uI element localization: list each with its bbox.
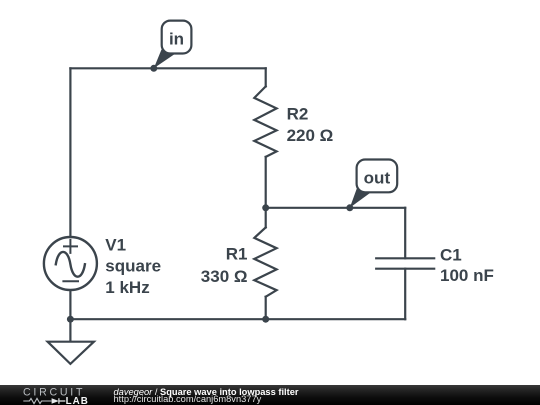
ground symbol [48, 342, 94, 364]
footer title line [114, 387, 299, 397]
wire bottom rail [70, 318, 405, 320]
capacitor C1 plate top [376, 257, 434, 259]
svg-text:100 nF: 100 nF [440, 266, 494, 285]
wire top rail [70, 67, 265, 69]
wire ground lead [69, 319, 71, 342]
node junction dot R1 bottom [262, 316, 269, 323]
V1 minus sign [63, 280, 78, 282]
footer url line [114, 394, 262, 404]
svg-text:V1: V1 [105, 235, 126, 254]
footer bar [0, 385, 540, 405]
node out flag pointer [350, 189, 371, 208]
svg-text:330 Ω: 330 Ω [201, 267, 248, 286]
svg-text:R1: R1 [226, 244, 248, 263]
node junction dot out [346, 204, 353, 211]
resistor R2 [254, 86, 276, 156]
voltage source V1 body [44, 237, 97, 290]
CircuitLab logo [0, 385, 100, 405]
svg-text:in: in [169, 30, 184, 49]
wire left rail lower [69, 291, 71, 320]
node junction dot ground [67, 316, 74, 323]
node junction dot in [150, 65, 157, 72]
svg-text:C1: C1 [440, 246, 462, 265]
svg-text:LAB: LAB [66, 396, 89, 405]
node out flag box [357, 160, 398, 193]
resistor R1 [254, 227, 276, 296]
wire R2 top lead [265, 68, 267, 86]
svg-text:R2: R2 [287, 105, 309, 124]
wire left rail upper [69, 68, 71, 236]
node in flag box [162, 21, 192, 54]
wire R2 bottom lead [265, 157, 267, 208]
svg-text:square: square [105, 257, 161, 276]
svg-text:220 Ω: 220 Ω [287, 126, 334, 145]
wire C1 top lead [404, 208, 406, 258]
V1 plus sign [64, 240, 77, 253]
V1 sine wave [56, 252, 85, 277]
svg-text:1 kHz: 1 kHz [105, 278, 149, 297]
wire R1 bottom lead [265, 297, 267, 320]
node in flag pointer [154, 50, 176, 69]
node junction dot R2/R1 [262, 204, 269, 211]
wire middle rail [266, 207, 406, 209]
wire R1 top lead [265, 208, 267, 228]
capacitor C1 plate bottom [376, 268, 434, 270]
svg-text:out: out [364, 169, 391, 188]
wire C1 bottom lead [404, 269, 406, 320]
